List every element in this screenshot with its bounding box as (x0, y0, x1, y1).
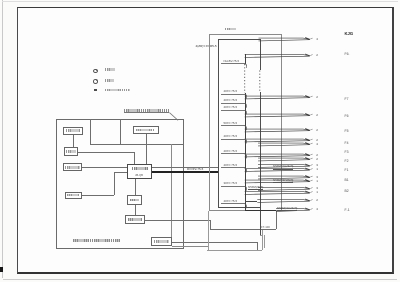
wire: branch circuit 6 to riser arrow (245, 139, 313, 142)
destination label F6 (345, 115, 349, 118)
legend row 2 symbol (93, 79, 98, 83)
junction arc at bus, circuit tap y=138.5 (245, 139, 247, 143)
wire feed to circuit 17 (bus bottom corner) (245, 210, 276, 211)
wire stub 9 to bus (221, 186, 245, 187)
wire load box to riser bottom (145, 220, 210, 221)
junction arc at bus, circuit tap y=109.7 (245, 110, 247, 114)
wire: branch circuit 12 to riser arrow (258, 176, 313, 179)
page edge line top (2, 1, 398, 2)
wire C1 to host U1 (82, 167, 127, 168)
pin number label, circuit 12 (316, 176, 318, 179)
label FT-100 (261, 226, 270, 229)
detector box C1 (63, 163, 82, 171)
page edge line bottom (3, 279, 397, 280)
junction arc at bus, circuit tap y=185.7 (245, 186, 247, 190)
pin number label, circuit 2 (316, 54, 318, 57)
pin number label, circuit 10 (316, 164, 318, 167)
cable value label 4#XY-75-5 (224, 106, 238, 109)
wire floor-display to host U1 (146, 134, 147, 164)
caption text under cabinet (73, 239, 120, 242)
wire host U1 to module M1 (135, 179, 136, 196)
box: floor display panel 楼层显示盘 (133, 126, 159, 134)
wire: branch circuit 2 to riser arrow (245, 54, 313, 57)
wire stub 10 to bus (221, 203, 245, 204)
callout leader line (169, 113, 178, 121)
wire D1 to host U1 (82, 195, 115, 196)
legend row 3 symbol (94, 89, 97, 91)
host box U1 (JB-QB fire alarm controller) (127, 164, 152, 178)
cable value label NH-BV-75-5 (224, 60, 240, 63)
wire host U1 to riser cabinet (power, thick) (152, 171, 218, 173)
pin number label, circuit 7 (316, 143, 318, 146)
destination label F3 (345, 151, 349, 154)
detector box A1 (63, 127, 83, 136)
wire: branch circuit 1 to riser arrow (259, 38, 313, 41)
cable value label 4#XY-75-5 (224, 99, 238, 102)
legend row 1 text (105, 68, 115, 71)
destination label F5 (345, 130, 349, 133)
junction arc at bus, circuit tap y=102.8 (245, 103, 247, 107)
callout label: cabinet title above left enclosure (124, 109, 169, 112)
label RVVP2-75-5 (187, 168, 203, 171)
wire stub 7 to bus (221, 153, 245, 154)
pin number label, circuit 4 (316, 114, 318, 117)
page edge line left (2, 0, 3, 278)
pin number label, circuit 5 (316, 129, 318, 132)
dashed segment bus riser 1 and 2 (244, 64, 246, 93)
wire: branch circuit 3 to riser arrow (245, 96, 313, 99)
junction arc at bus, circuit tap y=167.4 (245, 168, 247, 172)
pin number label, circuit 14 (316, 187, 318, 190)
destination label B2 (345, 190, 349, 193)
wire: branch circuit 5 to riser arrow (245, 129, 313, 132)
wire stub 4 to bus (221, 110, 245, 111)
wire host U1 to riser cabinet (RVVP) (152, 167, 218, 168)
connector box B1 (64, 147, 78, 156)
wire: branch circuit 9 to riser arrow (258, 158, 313, 161)
wire: branch circuit 10 to riser arrow (258, 164, 313, 167)
cable value label 4#XY-75-5 (224, 135, 238, 138)
destination label F6. (345, 53, 350, 56)
wire: branch circuit 7 to riser arrow (258, 143, 313, 146)
junction arc at bus, circuit tap y=125.3 (245, 126, 247, 130)
destination label B1 (345, 179, 349, 182)
destination label KJG (345, 32, 354, 35)
label TT riser cabinet name (225, 28, 236, 31)
wire: branch circuit 8 to riser arrow (245, 154, 313, 157)
wire stub 1 to bus (221, 63, 245, 64)
wire: branch circuit 11 to riser arrow (245, 168, 313, 171)
bus riser 1 (245, 54, 246, 64)
load equipment box (125, 215, 145, 224)
wire: branch circuit 17 to riser arrow (276, 208, 313, 211)
wire step at riser bottom (260, 235, 264, 236)
pin number label, circuit 15 (316, 191, 318, 194)
wire stub 8 to bus (221, 167, 245, 168)
wire: branch circuit 14 to riser arrow (258, 187, 313, 190)
cable value label 4#XY-75-5 (224, 200, 238, 203)
wire: branch circuit 4 to riser arrow (245, 114, 313, 117)
module box M1 (127, 195, 142, 205)
cable value label 3#XY-75-5 (224, 182, 238, 185)
enclosure: fire-control cabinet outline (56, 119, 184, 249)
wire partition to terminal box (171, 144, 172, 238)
detector box D1 (65, 192, 82, 200)
wire stub 3 to bus (221, 103, 245, 104)
cable value label 4#XY-75-5 (224, 150, 238, 153)
partition: floor-display compartment (90, 119, 91, 144)
black binding mark (0, 267, 3, 272)
pin number label, circuit 3 (316, 96, 318, 99)
destination label F1 (345, 169, 349, 172)
cable value label 4#XY-75-5 (224, 90, 238, 93)
wire terminal box to riser (172, 242, 257, 243)
junction arc at bus, circuit tap y=153.4 (245, 154, 247, 158)
wire stub 5 to bus (221, 125, 245, 126)
junction arc at bus, circuit tap y=63 (245, 64, 247, 68)
junction arc at bus, circuit tap y=93.5 (245, 94, 247, 98)
wire stub 2 to bus (221, 94, 245, 95)
wire A1-B1 (73, 135, 74, 147)
pin number label, circuit 13 (316, 180, 318, 183)
pin number label, circuit 16 (316, 199, 318, 202)
junction arc at bus, circuit tap y=203.3 (245, 204, 247, 208)
pin number label, circuit 1 (316, 38, 318, 41)
cable value label NH-BV(YJV-2X2.5) (273, 179, 293, 183)
wire: branch circuit 13 to riser arrow (245, 180, 313, 183)
wire loop below riser cabinet (208, 211, 209, 251)
cable value label NH-BV(YJV-2X2.5) (273, 165, 293, 169)
wire feed to circuit 16 (245, 201, 258, 202)
wire: branch circuit 16 to riser arrow (257, 199, 312, 202)
legend row 1 symbol (93, 69, 98, 73)
wire stub 6 to bus (221, 139, 245, 140)
destination label F-1 (345, 209, 350, 212)
legend row 2 text (105, 79, 114, 82)
wire terminal box lower (172, 246, 208, 247)
pin number label, circuit 11 (316, 168, 318, 171)
pin number label, circuit 8 (316, 154, 318, 157)
terminal box 端子线盒 (151, 237, 172, 246)
riser cabinet inner box (218, 39, 219, 207)
pin number label, circuit 17 (316, 208, 318, 211)
wire M1 to load box (135, 205, 136, 215)
cable value label NH-BV(YJV-2X2.5) (277, 207, 297, 211)
legend row 3 text (105, 89, 130, 92)
destination label F7 (345, 98, 349, 101)
cable value label 4#XY-75-5 (224, 164, 238, 167)
cable value label 5#XY-75-5 (224, 122, 238, 125)
pin number label, circuit 6 (316, 139, 318, 142)
wire: branch circuit 15 to riser arrow (245, 191, 313, 194)
cable value label NH-BV(2X2.5) (248, 186, 263, 190)
riser cabinet outer box (209, 34, 283, 211)
destination label F2 (345, 160, 349, 163)
destination label F4 (345, 142, 349, 145)
bus riser 2 (right edge, solid-dash-solid) (260, 39, 261, 70)
pin number label, circuit 9 (316, 158, 318, 161)
cable label 4(ZR)YJV-R5-5 (196, 45, 217, 48)
wire B1 to host U1 (78, 152, 134, 153)
